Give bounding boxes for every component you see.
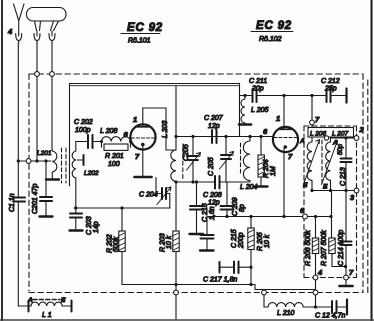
ground stub node 7 (340, 280, 353, 286)
ground bar tube1 cathode (135, 176, 152, 179)
svg-text:50p: 50p (337, 144, 344, 155)
ground bar L201 (46, 178, 59, 180)
svg-text:1M: 1M (270, 166, 277, 176)
inductor L1 (18, 301, 71, 312)
junction dot (17, 159, 20, 162)
svg-text:Rö.101: Rö.101 (128, 38, 151, 45)
trimmer capacitor C204 (156, 178, 171, 209)
antenna plug 3 (49, 31, 55, 43)
inductor L206 primary (304, 140, 320, 191)
core dashes L204 (240, 143, 242, 173)
svg-text:C 205: C 205 (208, 157, 215, 176)
svg-text:3: 3 (350, 193, 355, 202)
svg-text:7: 7 (349, 268, 354, 277)
svg-text:E: E (61, 297, 66, 304)
junction dot (314, 215, 317, 218)
label C214 100p (338, 230, 345, 266)
inductor L202 (72, 142, 76, 209)
svg-text:C201 47p: C201 47p (32, 184, 39, 214)
svg-text:500k: 500k (113, 236, 120, 252)
label R203 10k (160, 233, 174, 252)
figure frame left (1, 0, 3, 321)
capacitor C217 1,8n (220, 262, 252, 274)
junction dot (259, 135, 262, 138)
resistor R203 10k (173, 231, 179, 319)
svg-text:EC 92: EC 92 (256, 20, 292, 32)
svg-text:14p: 14p (93, 221, 100, 233)
label R201 100 (105, 153, 124, 168)
core dashes L206/L207 (321, 140, 323, 186)
junction dot (249, 283, 252, 286)
svg-text:R 204: R 204 (263, 159, 270, 178)
svg-text:7: 7 (288, 152, 293, 161)
svg-text:L 208: L 208 (100, 128, 117, 135)
svg-text:25p: 25p (324, 86, 337, 93)
junction dot (35, 159, 38, 162)
resistor R207 500k (329, 238, 346, 267)
junction dot (191, 180, 194, 183)
resistor R202 500k (119, 208, 125, 285)
wire drop to L210 (263, 290, 265, 308)
svg-text:R 206 500k: R 206 500k (305, 230, 312, 266)
wire B+ riser (315, 278, 317, 308)
capacitor C1 (series in antenna lead) (13, 198, 25, 307)
svg-text:R 207 500k: R 207 500k (321, 230, 328, 266)
node circle 2 (354, 136, 359, 141)
svg-text:L 210: L 210 (277, 310, 294, 317)
junction dot (174, 283, 177, 286)
resistor R206 500k (312, 238, 318, 275)
IF can dashed box (304, 126, 357, 278)
junction dot (344, 189, 347, 192)
svg-text:C 12 4,7n: C 12 4,7n (315, 313, 345, 320)
svg-text:12p: 12p (208, 200, 220, 207)
wire anode to tank (143, 108, 176, 150)
svg-text:C 214 100p: C 214 100p (338, 230, 345, 266)
capacitor C213 50p (341, 138, 352, 191)
node circle 4 (313, 275, 318, 280)
AVC line (y=208) (74, 207, 170, 209)
node circle 7 (can top) (310, 120, 315, 125)
svg-text:C 202: C 202 (74, 119, 93, 126)
svg-text:C 208: C 208 (203, 192, 222, 199)
label C216 1,6n (202, 203, 216, 222)
svg-text:L 205: L 205 (251, 107, 268, 114)
triode tube V1 EC92 (130, 108, 155, 177)
inductor L201 (52, 150, 57, 179)
triode tube V2 EC92 (273, 96, 298, 217)
junction dot (329, 189, 332, 192)
junction dot (195, 180, 198, 183)
feedthrough circle (L210 feed) (262, 290, 267, 295)
inductor L204 (243, 137, 250, 183)
capacitor C209 8p (221, 182, 234, 217)
svg-text:4: 4 (317, 268, 323, 277)
resistor R201 (parallel box) (102, 142, 132, 151)
label R202 500k (107, 234, 121, 253)
junction dot (100, 140, 103, 143)
capacitor C207 12p (series in line A) (212, 130, 217, 143)
svg-text:L201: L201 (37, 150, 52, 157)
svg-text:12p: 12p (208, 123, 220, 130)
trimmer capacitor C205b (220, 137, 234, 183)
capacitor C211 20p (253, 89, 257, 102)
feedthrough circle (B+ line) (313, 290, 318, 295)
junction dot (248, 135, 251, 138)
node circle 7 (can bottom) (344, 275, 349, 280)
junction dot (225, 215, 228, 218)
junction dot (249, 266, 252, 269)
antenna plug 1 (16, 33, 22, 43)
capacitor C201 47p (40, 161, 53, 217)
dipole connector (27, 8, 67, 31)
svg-text:C 211: C 211 (249, 78, 267, 85)
resistor R204 1M (258, 137, 264, 187)
feedthrough circle at chassis wall (26, 159, 31, 164)
chassis dashed enclosure (29, 74, 368, 293)
inductor L203 (tank coil) (171, 137, 176, 232)
label C202 100p (74, 119, 93, 134)
capacitor C208 12p (series in line B) (215, 176, 220, 189)
junction dot (74, 206, 77, 209)
svg-text:7: 7 (135, 152, 140, 161)
svg-text:L 207: L 207 (332, 130, 349, 137)
svg-text:C 209: C 209 (232, 197, 239, 216)
resistor R205 10k (248, 217, 254, 285)
svg-text:C 217 1,8n: C 217 1,8n (203, 277, 237, 284)
wire antenna lead down (17, 43, 19, 197)
label C203 14p (86, 216, 100, 235)
signal line A (tank top bus to tube2 grid) (176, 136, 273, 138)
svg-text:C 212: C 212 (321, 78, 340, 85)
svg-text:1,6n: 1,6n (209, 206, 216, 220)
junction dot (282, 215, 285, 218)
junction dot (282, 94, 285, 97)
label R207 500k (321, 230, 328, 266)
tube label EC92 Roe.102 (251, 20, 293, 43)
svg-text:E: E (303, 182, 308, 189)
svg-text:E: E (323, 184, 328, 191)
core dashes L1 (33, 299, 60, 301)
svg-text:A: A (299, 138, 305, 145)
svg-text:C1 1n: C1 1n (9, 193, 16, 212)
svg-text:C205: C205 (183, 144, 190, 161)
stage 1 shield box (70, 84, 240, 187)
svg-text:A: A (27, 297, 33, 304)
junction dot (243, 94, 246, 97)
trimmer capacitor C205a (187, 137, 201, 183)
wire antenna junction horizontal (18, 160, 51, 162)
junction dot (224, 135, 227, 138)
svg-text:C 215: C 215 (231, 229, 238, 248)
svg-text:EC 92: EC 92 (127, 22, 163, 34)
junction dot (344, 136, 347, 139)
label C207 12p (204, 115, 224, 130)
svg-text:C 203: C 203 (86, 216, 93, 235)
junction dot (249, 215, 252, 218)
junction dot (314, 305, 317, 308)
svg-text:L202: L202 (84, 170, 99, 177)
core dashes L203 (182, 148, 184, 179)
svg-text:1: 1 (133, 115, 137, 124)
label C208 12p (203, 192, 222, 207)
capacitor C12 4,7n (316, 300, 348, 315)
figure frame bottom (0, 319, 374, 321)
wire node6 into can (307, 216, 331, 218)
svg-text:7: 7 (315, 115, 320, 124)
wire L207 top to terminal 2 (331, 137, 357, 139)
svg-text:L 1: L 1 (42, 312, 52, 319)
label R205 10k (257, 232, 271, 251)
capacitor C215 200p (200, 217, 214, 251)
svg-text:Rö.102: Rö.102 (259, 36, 282, 43)
capacitor C216 1,6n (190, 182, 204, 234)
junction dot (44, 159, 47, 162)
wire node7 riser (311, 96, 313, 141)
svg-text:100: 100 (108, 161, 120, 168)
svg-text:C 204: C 204 (139, 192, 158, 199)
inductor L210 (264, 303, 316, 307)
svg-text:L 206: L 206 (310, 130, 327, 137)
capacitor C214 100p (341, 191, 352, 276)
antenna symbol (14, 4, 25, 33)
svg-text:R 205: R 205 (257, 232, 264, 251)
junction dot (310, 94, 313, 97)
junction dot (174, 180, 177, 183)
svg-text:6: 6 (263, 127, 268, 136)
junction dot (310, 189, 313, 192)
label C209 8p (232, 197, 246, 216)
svg-text:10 k: 10 k (264, 234, 271, 248)
coupling line (y=95.5) (240, 89, 347, 103)
feedthrough circle dipole A (35, 72, 40, 77)
inductor L205 (239, 96, 251, 125)
svg-text:200p: 200p (238, 232, 245, 249)
junction dot (174, 135, 177, 138)
svg-text:C 216: C 216 (202, 203, 209, 222)
transformer core L201/L202 (62, 148, 67, 183)
node circle 3 (354, 188, 359, 193)
feedthrough circle (R203 line) (174, 290, 179, 295)
inductor L208 (102, 137, 131, 142)
junction dot (120, 206, 123, 209)
cathode line (y=216.5) (207, 216, 305, 218)
svg-text:L 203: L 203 (162, 121, 169, 138)
node circle 6 (can wall) (303, 214, 308, 219)
line B (tank bottom) (176, 181, 250, 183)
wire R206 top (315, 217, 317, 239)
tube label EC92 Roe.101 (121, 22, 163, 45)
svg-text:20p: 20p (251, 86, 264, 93)
wire dipole lead B down (51, 43, 53, 150)
label C211 20p (249, 78, 267, 93)
capacitor C203 14p (70, 208, 83, 231)
junction dot (191, 135, 194, 138)
capacitor C212 25p (327, 89, 331, 102)
svg-text:C 207: C 207 (204, 115, 224, 122)
can bottom line (312, 190, 357, 192)
antenna plug 2 (34, 31, 40, 43)
label C212 25p (321, 78, 340, 93)
tap circle (324, 136, 328, 140)
svg-text:1: 1 (276, 114, 280, 123)
label R206 500k (305, 230, 312, 266)
capacitor C202 100p (76, 135, 102, 148)
svg-text:R 201: R 201 (105, 153, 124, 160)
wire L207 bottom riser (331, 191, 333, 239)
label C215 200p (231, 229, 245, 249)
junction dot (344, 265, 347, 268)
junction dot (329, 215, 332, 218)
L202 tap stub (77, 155, 84, 165)
svg-text:8p: 8p (239, 204, 246, 212)
svg-text:100p: 100p (75, 127, 91, 134)
svg-text:10 k: 10 k (166, 235, 173, 249)
figure frame right (371, 0, 373, 321)
feedthrough circle dipole B (50, 72, 55, 77)
wire dipole lead A down (36, 43, 38, 161)
inductor L207 secondary (322, 138, 338, 191)
svg-text:4: 4 (7, 27, 13, 36)
svg-text:C 213: C 213 (340, 167, 347, 186)
wire tank top riser (175, 86, 177, 137)
label box L206 L207 (308, 128, 354, 138)
junction dot (129, 140, 132, 143)
ground bar R204 (255, 185, 268, 187)
ground bus (122, 285, 316, 290)
svg-text:2: 2 (359, 125, 365, 134)
